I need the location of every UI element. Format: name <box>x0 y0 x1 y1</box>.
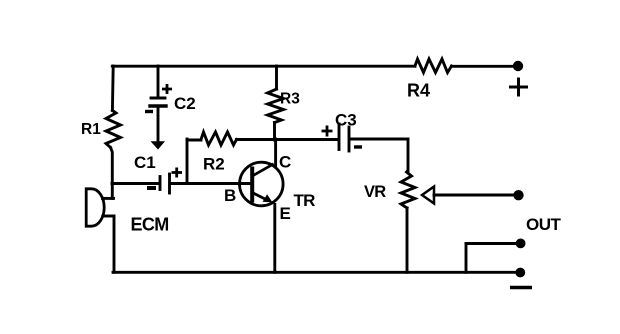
svg-text:R3: R3 <box>280 91 300 108</box>
svg-text:C3: C3 <box>335 111 357 130</box>
svg-text:VR: VR <box>364 183 386 201</box>
svg-text:C2: C2 <box>174 94 196 113</box>
svg-text:B: B <box>224 186 236 205</box>
svg-text:ECM: ECM <box>131 214 169 234</box>
svg-text:R4: R4 <box>407 81 430 101</box>
svg-text:E: E <box>280 204 291 223</box>
svg-text:R2: R2 <box>203 155 225 174</box>
svg-text:C1: C1 <box>134 153 156 172</box>
svg-text:R1: R1 <box>81 121 101 138</box>
svg-text:TR: TR <box>294 191 316 210</box>
svg-text:OUT: OUT <box>526 215 562 234</box>
svg-text:C: C <box>279 152 291 171</box>
